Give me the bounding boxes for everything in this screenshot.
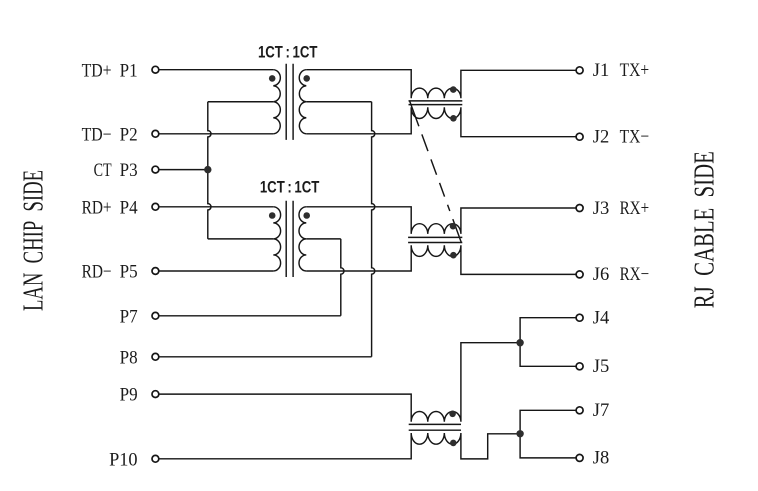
pin P5 terminal: [152, 268, 159, 275]
junction node A: [516, 339, 523, 346]
pin J6 terminal: [576, 271, 583, 278]
transformer T2 secondary winding: [299, 207, 306, 271]
svg-text:P4: P4: [120, 197, 138, 218]
wire J4 J5 branch: [520, 318, 576, 367]
svg-text:TD−: TD−: [82, 124, 112, 145]
polarity dot L1 top: [450, 86, 457, 93]
svg-text:J5: J5: [593, 356, 610, 377]
wire P2 to T1 primary bottom: [159, 133, 274, 135]
choke L2 bottom winding with wires to T2 and J6: [306, 245, 576, 274]
svg-text:1CT : 1CT: 1CT : 1CT: [258, 44, 318, 62]
wire T1 primary center tap: [208, 101, 273, 103]
pin J5 terminal: [576, 363, 583, 370]
pin J8 terminal: [576, 454, 583, 461]
dashed coupling line: [410, 101, 462, 243]
wire J7 J8 branch: [520, 410, 576, 458]
pin P1 terminal: [152, 66, 159, 73]
wire P5 to T2 primary bottom: [159, 270, 274, 272]
pin J3 terminal: [576, 205, 583, 212]
polarity dot T2 primary: [269, 212, 276, 219]
transformer T2 primary winding: [273, 207, 280, 271]
svg-text:P5: P5: [120, 262, 138, 283]
svg-text:TX−: TX−: [620, 127, 650, 148]
choke L2 core: [408, 237, 462, 242]
polarity dot L2 bottom: [450, 252, 457, 259]
svg-text:J1: J1: [593, 60, 610, 81]
wire P8 vertical with hops: [372, 102, 375, 357]
polarity dot T1 secondary: [303, 75, 310, 82]
wire P7 vertical with hop: [341, 239, 344, 316]
pin J4 terminal: [576, 314, 583, 321]
choke L1 top winding with wires to T1 and J1: [306, 70, 576, 99]
svg-text:1CT : 1CT: 1CT : 1CT: [260, 178, 320, 196]
junction node B: [516, 430, 523, 437]
svg-text:J8: J8: [593, 448, 610, 469]
pin P3 terminal: [152, 166, 159, 173]
svg-text:CT: CT: [94, 160, 112, 181]
svg-text:P10: P10: [109, 449, 138, 470]
wire P3 to CT node: [159, 169, 208, 171]
wire CT vertical with hops over P2 and P4 wires: [208, 102, 211, 239]
svg-text:P3: P3: [120, 160, 138, 181]
wire T1 secondary tap to P8 vertical: [306, 101, 371, 103]
pin J1 terminal: [576, 67, 583, 74]
choke L3 top winding with wires P9 and node A: [159, 343, 520, 422]
choke L3 bottom winding with wires P10 and node B: [159, 433, 520, 459]
svg-text:RD−: RD−: [82, 262, 112, 283]
wire P4 to T2 primary top: [159, 206, 274, 208]
polarity dot T1 primary: [269, 75, 276, 82]
wire P8 horizontal: [159, 356, 372, 358]
pin P10 terminal: [152, 455, 159, 462]
wire T2 secondary tap to P7 vertical: [306, 238, 341, 240]
svg-text:P9: P9: [120, 385, 138, 406]
svg-text:J7: J7: [593, 400, 610, 421]
pin P2 terminal: [152, 130, 159, 137]
transformer T1 core: [286, 64, 293, 140]
pin J2 terminal: [576, 133, 583, 140]
svg-text:LAN CHIP SIDE: LAN CHIP SIDE: [19, 170, 50, 311]
svg-text:RX−: RX−: [620, 264, 650, 285]
pin P7 terminal: [152, 312, 159, 319]
polarity dot L3 bottom: [450, 440, 457, 447]
svg-text:J2: J2: [593, 127, 610, 148]
svg-text:RJ CABLE SIDE: RJ CABLE SIDE: [690, 151, 721, 308]
svg-text:J3: J3: [593, 198, 610, 219]
pin P8 terminal: [152, 353, 159, 360]
svg-text:P2: P2: [120, 124, 138, 145]
polarity dot T2 secondary: [303, 212, 310, 219]
svg-text:TD+: TD+: [82, 60, 112, 81]
polarity dot L3 top: [449, 411, 456, 418]
svg-text:J6: J6: [593, 264, 610, 285]
polarity dot L2 top: [450, 223, 457, 230]
svg-text:RX+: RX+: [620, 198, 650, 219]
svg-text:RD+: RD+: [82, 197, 112, 218]
pin P4 terminal: [152, 203, 159, 210]
pin P9 terminal: [152, 391, 159, 398]
svg-text:P8: P8: [120, 347, 138, 368]
choke L2 top winding with wires to T2 and J3: [306, 207, 576, 234]
wire P1 to T1 primary top: [159, 69, 274, 71]
choke L1 core: [409, 101, 463, 105]
transformer T1 primary winding: [273, 70, 280, 134]
transformer T2 core: [286, 201, 293, 277]
wire T2 primary center tap: [208, 238, 273, 240]
transformer T1 secondary winding: [299, 70, 306, 134]
choke L1 bottom winding with wires to T1 and J2: [306, 107, 576, 136]
polarity dot L1 bottom: [450, 115, 457, 122]
choke L3 core: [409, 424, 461, 430]
svg-text:J4: J4: [593, 308, 610, 329]
svg-text:P1: P1: [120, 60, 138, 81]
pin J7 terminal: [576, 407, 583, 414]
junction node P3 CT: [204, 166, 211, 173]
svg-text:TX+: TX+: [620, 60, 650, 81]
wire P7 horizontal: [159, 315, 341, 317]
svg-text:P7: P7: [120, 306, 138, 327]
